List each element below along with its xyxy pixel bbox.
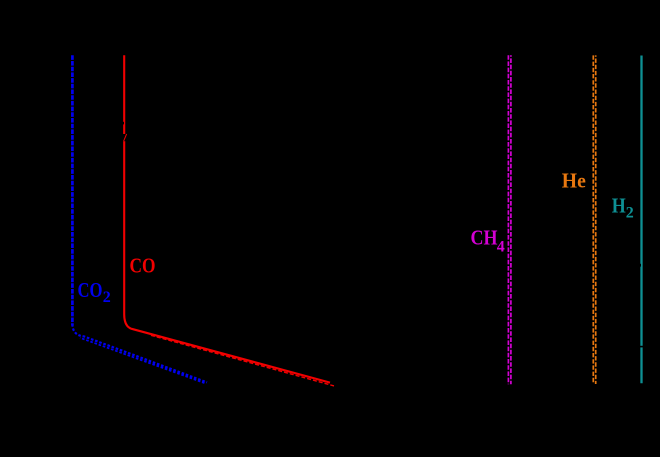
curve CO2 (blue dashed) knee and sloped segment a — [72, 324, 207, 382]
svg-text:CH: CH — [471, 225, 498, 249]
svg-text:H: H — [612, 193, 626, 217]
svg-text:He: He — [562, 168, 586, 192]
black overlay: notch on teal line — [639, 264, 641, 267]
black overlay: hidden curve crossing red line — [122, 134, 127, 141]
curve CO2 (blue dashed) vertical segment — [71, 55, 74, 325]
svg-text:CO: CO — [130, 253, 156, 277]
curve CH4 (magenta dashed) line b — [510, 55, 512, 384]
curve CO twin (red dashed, slightly below) — [151, 335, 334, 386]
svg-text:2: 2 — [626, 205, 634, 222]
black overlay: gap on teal line lower — [640, 346, 644, 348]
curve He (orange dashed) line a — [592, 55, 594, 384]
black overlay: small notch on red line — [123, 122, 124, 125]
curve CH4 (magenta dashed) line a — [507, 55, 509, 384]
curve H2 (teal solid) — [640, 56, 642, 384]
curve He (orange dashed) line b — [595, 55, 597, 384]
svg-text:2: 2 — [103, 289, 111, 306]
curve CO (red solid) vertical + knee + slope — [124, 55, 330, 382]
svg-text:4: 4 — [497, 238, 505, 255]
svg-text:CO: CO — [78, 278, 103, 302]
curve CO2 (blue dashed) sloped segment b — [80, 338, 206, 384]
